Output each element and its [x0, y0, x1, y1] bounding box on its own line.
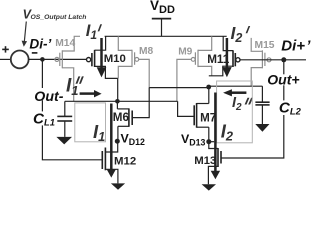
wire Out- to M7 gate riser — [178, 101, 195, 116]
transistor M12 — [102, 142, 118, 184]
svg-text:M8: M8 — [139, 46, 153, 57]
transistor M7 — [194, 87, 209, 142]
label CL1 — [32, 111, 56, 128]
ground M12 — [111, 183, 125, 189]
VDD supply bar — [152, 19, 171, 37]
transistor M13 — [208, 142, 221, 185]
svg-text:M13: M13 — [194, 155, 216, 167]
svg-text:Out-: Out- — [34, 89, 63, 105]
transistor M6 — [117, 101, 132, 141]
current arrow I2 (through M13) — [211, 93, 220, 180]
ground CL2 — [255, 124, 269, 132]
current arrow I1'' — [80, 90, 102, 97]
label Out- — [34, 88, 64, 105]
transistor M15 — [251, 38, 271, 86]
wire M6 gate riser — [132, 88, 149, 118]
transistor M10 — [87, 36, 118, 101]
transistor M11 — [209, 36, 240, 76]
current arrow I1' — [97, 38, 107, 77]
current arrow I1 (through M12) — [107, 104, 116, 178]
svg-text:Out+: Out+ — [267, 72, 299, 88]
label CL2 — [279, 99, 302, 116]
svg-text:M7: M7 — [200, 111, 216, 124]
callout box I2 — [217, 81, 253, 143]
wire tick dot to I2 arrow — [211, 141, 215, 143]
ground M13 — [202, 184, 216, 190]
transistor M9 — [177, 36, 212, 101]
ground CL1 — [56, 137, 72, 145]
svg-text:M9: M9 — [178, 47, 192, 58]
pointer arrow to source — [22, 22, 28, 47]
wire VDD rail — [80, 35, 227, 37]
capacitor CL1 — [57, 101, 72, 137]
svg-text:M12: M12 — [114, 156, 136, 168]
svg-text:M10: M10 — [104, 53, 126, 65]
wire Out- net — [65, 100, 178, 102]
transistor M8 — [118, 36, 149, 88]
node Di-' junction dot — [40, 57, 45, 62]
svg-text:Di+’: Di+’ — [281, 38, 311, 55]
callout box I1 — [75, 103, 106, 142]
wire right column (Di+' to M13 gate) — [221, 60, 284, 158]
svg-text:OS_Output Latch: OS_Output Latch — [31, 14, 87, 21]
node Di+' junction dot — [281, 57, 286, 62]
wire cross-couple A (Out+ to M6/M8 gates) — [149, 87, 209, 89]
label Out+ — [267, 72, 302, 88]
capacitor CL2 — [255, 86, 269, 124]
svg-text:M6: M6 — [113, 111, 130, 124]
node Out+ column dot — [206, 85, 211, 90]
wire Di-' — [29, 58, 88, 60]
current arrow I2'' — [223, 89, 246, 96]
wire Di+' — [240, 59, 306, 61]
white gap for I1' label — [80, 14, 105, 39]
current arrow I2' — [222, 38, 232, 77]
svg-text:M15: M15 — [255, 40, 275, 51]
svg-text:M14: M14 — [55, 38, 75, 49]
node VD12 junction dot — [115, 139, 120, 144]
node VD13 junction dot — [206, 139, 211, 144]
voltage source VOS circle — [0, 46, 37, 68]
node Out- junction dot — [115, 99, 120, 104]
transistor M14 — [55, 36, 80, 101]
white gap for I2' label — [227, 14, 251, 39]
svg-text:Di-’: Di-’ — [29, 37, 51, 52]
wire Out+ net — [209, 85, 263, 87]
wire left column (Di-' to M12 gate) — [42, 59, 102, 159]
